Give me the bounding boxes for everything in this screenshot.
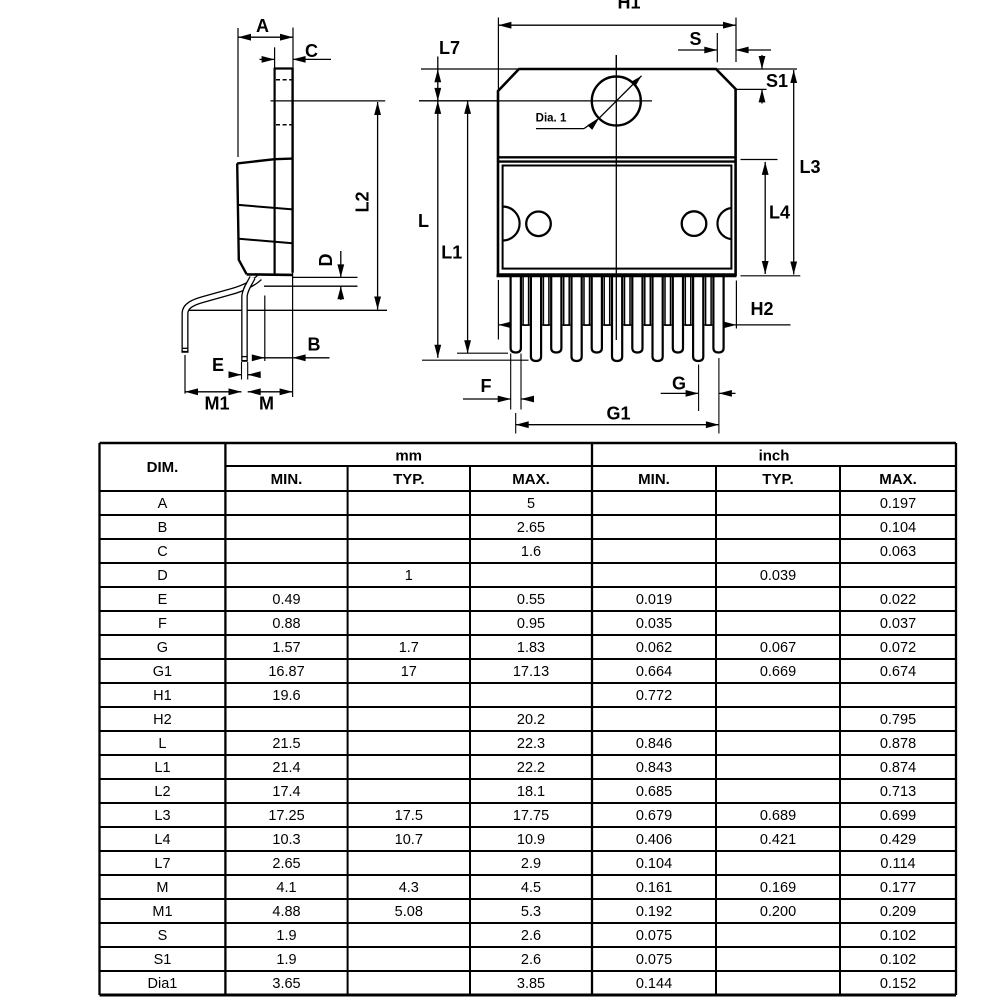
svg-text:MAX.: MAX. (512, 471, 550, 488)
svg-text:L2: L2 (154, 784, 170, 800)
svg-text:5: 5 (527, 496, 535, 512)
svg-text:0.209: 0.209 (880, 904, 916, 920)
svg-text:0.169: 0.169 (760, 880, 796, 896)
svg-text:H1: H1 (617, 0, 640, 13)
svg-text:S: S (689, 29, 701, 49)
svg-text:5.3: 5.3 (521, 904, 541, 920)
svg-text:TYP.: TYP. (393, 471, 424, 488)
svg-text:0.878: 0.878 (880, 736, 916, 752)
svg-text:F: F (158, 616, 167, 632)
svg-text:0.421: 0.421 (760, 832, 796, 848)
svg-text:0.067: 0.067 (760, 640, 796, 656)
svg-text:0.022: 0.022 (880, 592, 916, 608)
svg-text:0.772: 0.772 (636, 688, 672, 704)
svg-text:17: 17 (401, 664, 417, 680)
svg-text:17.5: 17.5 (395, 808, 423, 824)
svg-text:17.75: 17.75 (513, 808, 549, 824)
svg-text:H2: H2 (750, 299, 773, 319)
svg-text:0.874: 0.874 (880, 760, 916, 776)
svg-text:0.102: 0.102 (880, 928, 916, 944)
svg-text:0.063: 0.063 (880, 544, 916, 560)
svg-text:1.7: 1.7 (399, 640, 419, 656)
svg-text:G: G (672, 374, 686, 394)
svg-text:17.25: 17.25 (268, 808, 304, 824)
svg-text:L2: L2 (353, 191, 373, 212)
svg-text:1.83: 1.83 (517, 640, 545, 656)
svg-text:M1: M1 (204, 394, 229, 414)
svg-text:0.55: 0.55 (517, 592, 545, 608)
svg-text:16.87: 16.87 (268, 664, 304, 680)
svg-text:2.6: 2.6 (521, 928, 541, 944)
svg-text:A: A (158, 496, 168, 512)
svg-text:0.039: 0.039 (760, 568, 796, 584)
svg-text:19.6: 19.6 (272, 688, 300, 704)
svg-text:Dia1: Dia1 (148, 976, 178, 992)
svg-text:0.144: 0.144 (636, 976, 672, 992)
svg-text:L4: L4 (769, 203, 790, 223)
svg-text:4.3: 4.3 (399, 880, 419, 896)
svg-text:L: L (418, 211, 429, 231)
svg-text:3.85: 3.85 (517, 976, 545, 992)
svg-text:0.102: 0.102 (880, 952, 916, 968)
svg-text:L4: L4 (154, 832, 170, 848)
svg-text:0.679: 0.679 (636, 808, 672, 824)
svg-text:21.5: 21.5 (272, 736, 300, 752)
svg-text:0.037: 0.037 (880, 616, 916, 632)
svg-text:0.49: 0.49 (272, 592, 300, 608)
svg-text:TYP.: TYP. (762, 471, 793, 488)
svg-text:MIN.: MIN. (638, 471, 670, 488)
svg-text:5.08: 5.08 (395, 904, 423, 920)
svg-text:0.713: 0.713 (880, 784, 916, 800)
svg-text:0.104: 0.104 (880, 520, 916, 536)
svg-text:10.7: 10.7 (395, 832, 423, 848)
svg-text:0.197: 0.197 (880, 496, 916, 512)
svg-text:A: A (256, 16, 269, 36)
svg-text:DIM.: DIM. (147, 459, 179, 476)
svg-text:G1: G1 (606, 404, 630, 424)
svg-text:C: C (157, 544, 167, 560)
svg-text:mm: mm (395, 448, 422, 465)
svg-text:S1: S1 (154, 952, 172, 968)
svg-text:0.152: 0.152 (880, 976, 916, 992)
svg-text:0.200: 0.200 (760, 904, 796, 920)
svg-text:MIN.: MIN. (271, 471, 303, 488)
svg-text:B: B (308, 335, 321, 355)
svg-text:L7: L7 (439, 38, 460, 58)
svg-text:M: M (259, 394, 274, 414)
svg-text:L3: L3 (799, 157, 820, 177)
svg-text:10.9: 10.9 (517, 832, 545, 848)
svg-text:0.664: 0.664 (636, 664, 672, 680)
svg-text:4.88: 4.88 (272, 904, 300, 920)
svg-text:inch: inch (759, 448, 790, 465)
svg-text:C: C (305, 41, 318, 61)
svg-text:G: G (157, 640, 168, 656)
svg-text:0.846: 0.846 (636, 736, 672, 752)
svg-text:2.65: 2.65 (517, 520, 545, 536)
svg-text:2.6: 2.6 (521, 952, 541, 968)
svg-text:0.075: 0.075 (636, 952, 672, 968)
svg-text:0.843: 0.843 (636, 760, 672, 776)
svg-text:17.13: 17.13 (513, 664, 549, 680)
svg-text:E: E (158, 592, 168, 608)
svg-text:L1: L1 (441, 243, 462, 263)
svg-text:22.2: 22.2 (517, 760, 545, 776)
svg-text:18.1: 18.1 (517, 784, 545, 800)
svg-text:0.177: 0.177 (880, 880, 916, 896)
svg-text:D: D (157, 568, 167, 584)
svg-text:4.5: 4.5 (521, 880, 541, 896)
svg-text:2.65: 2.65 (272, 856, 300, 872)
svg-text:0.072: 0.072 (880, 640, 916, 656)
svg-text:0.035: 0.035 (636, 616, 672, 632)
svg-text:20.2: 20.2 (517, 712, 545, 728)
svg-text:G1: G1 (153, 664, 172, 680)
svg-text:D: D (316, 254, 336, 267)
svg-text:L3: L3 (154, 808, 170, 824)
svg-text:1: 1 (405, 568, 413, 584)
svg-text:M: M (156, 880, 168, 896)
svg-text:E: E (212, 355, 224, 375)
svg-text:0.062: 0.062 (636, 640, 672, 656)
svg-text:H2: H2 (153, 712, 172, 728)
svg-text:0.95: 0.95 (517, 616, 545, 632)
svg-text:0.429: 0.429 (880, 832, 916, 848)
svg-text:0.114: 0.114 (880, 856, 915, 872)
svg-text:0.685: 0.685 (636, 784, 672, 800)
svg-text:L1: L1 (154, 760, 170, 776)
svg-text:21.4: 21.4 (272, 760, 300, 776)
svg-text:1.9: 1.9 (276, 952, 296, 968)
svg-text:Dia. 1: Dia. 1 (536, 113, 567, 125)
svg-text:0.689: 0.689 (760, 808, 796, 824)
svg-text:S1: S1 (766, 71, 788, 91)
svg-text:0.795: 0.795 (880, 712, 916, 728)
svg-text:0.104: 0.104 (636, 856, 672, 872)
svg-text:2.9: 2.9 (521, 856, 541, 872)
svg-text:L: L (158, 736, 166, 752)
svg-text:0.019: 0.019 (636, 592, 672, 608)
svg-text:MAX.: MAX. (879, 471, 917, 488)
svg-text:1.6: 1.6 (521, 544, 541, 560)
svg-text:0.192: 0.192 (636, 904, 672, 920)
svg-text:1.9: 1.9 (276, 928, 296, 944)
svg-text:22.3: 22.3 (517, 736, 545, 752)
svg-text:B: B (158, 520, 168, 536)
svg-text:M1: M1 (152, 904, 172, 920)
svg-text:L7: L7 (154, 856, 170, 872)
svg-text:10.3: 10.3 (272, 832, 300, 848)
svg-text:4.1: 4.1 (276, 880, 296, 896)
svg-text:0.161: 0.161 (636, 880, 672, 896)
svg-text:H1: H1 (153, 688, 172, 704)
svg-text:0.88: 0.88 (272, 616, 300, 632)
svg-text:0.674: 0.674 (880, 664, 916, 680)
svg-text:17.4: 17.4 (272, 784, 300, 800)
svg-text:1.57: 1.57 (272, 640, 300, 656)
svg-text:0.075: 0.075 (636, 928, 672, 944)
svg-text:F: F (481, 376, 492, 396)
svg-text:S: S (158, 928, 168, 944)
svg-text:0.699: 0.699 (880, 808, 916, 824)
svg-text:3.65: 3.65 (272, 976, 300, 992)
svg-text:0.406: 0.406 (636, 832, 672, 848)
svg-text:0.669: 0.669 (760, 664, 796, 680)
